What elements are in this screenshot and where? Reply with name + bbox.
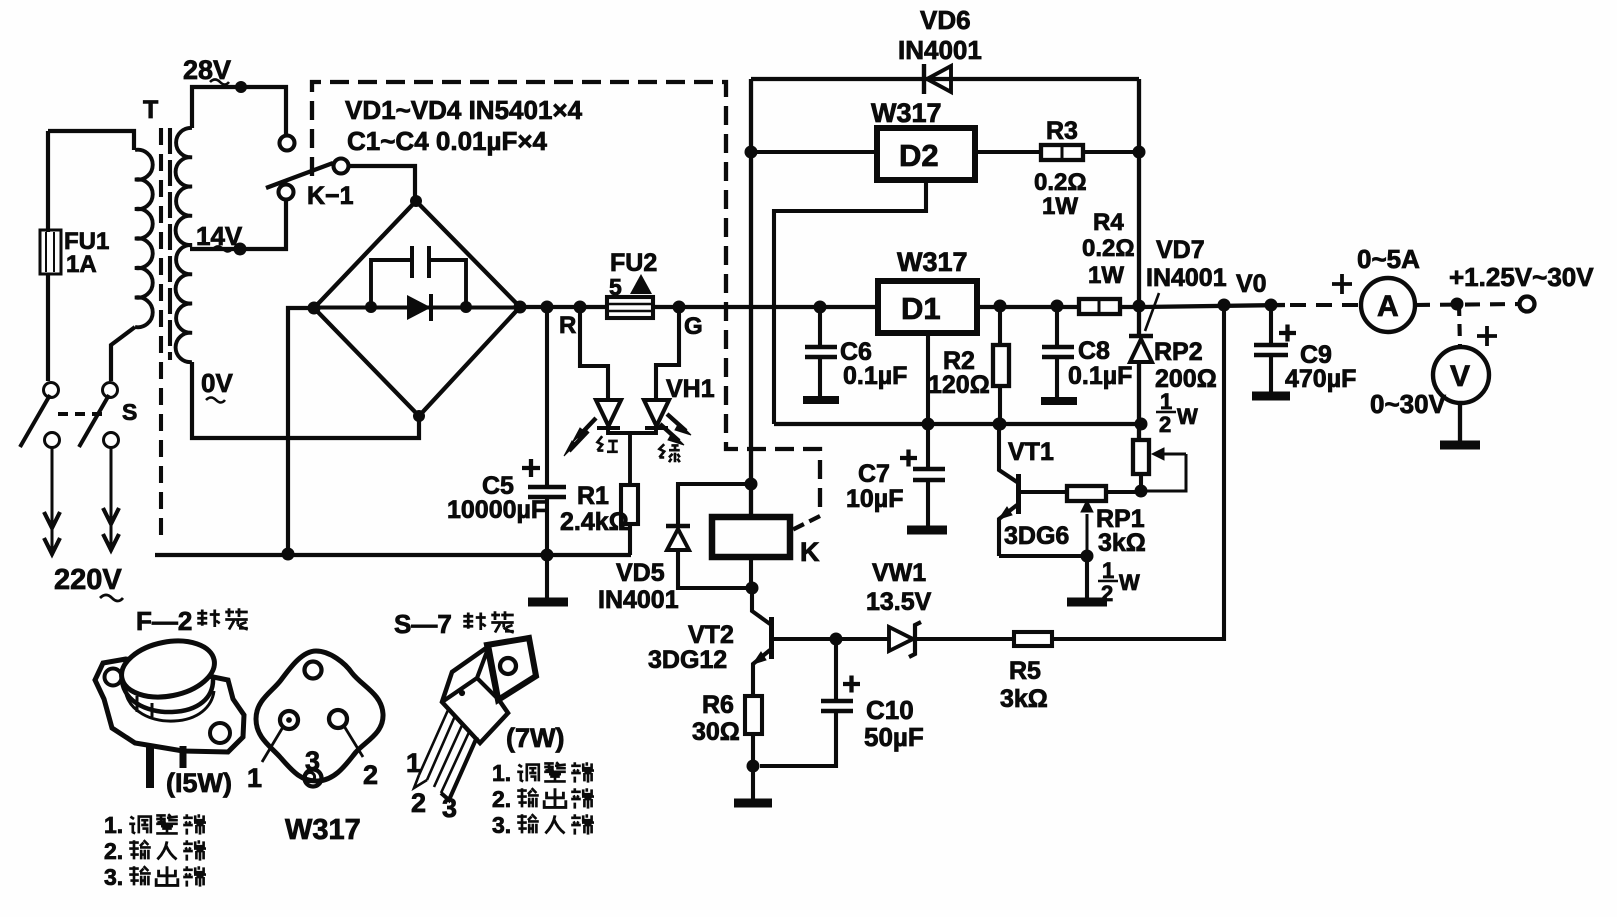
transformer primary winding — [135, 150, 153, 328]
svg-text:28V: 28V — [183, 55, 231, 85]
label RP2 — [1154, 338, 1217, 393]
svg-text:W317: W317 — [897, 247, 968, 277]
label F-2 pin 3 — [104, 864, 206, 890]
svg-text:0.2Ω: 0.2Ω — [1034, 169, 1087, 196]
wire FU1 to switch — [46, 274, 50, 381]
svg-text:2.4kΩ: 2.4kΩ — [560, 508, 629, 536]
wire 14V tap — [190, 200, 286, 249]
svg-text:V0: V0 — [1236, 270, 1267, 298]
svg-text:1.: 1. — [492, 760, 511, 786]
node bridge top vertex — [410, 195, 422, 207]
svg-text:S: S — [122, 399, 137, 425]
svg-text:R4: R4 — [1093, 209, 1124, 236]
node bridge bottom vertex — [413, 410, 425, 422]
svg-text:1: 1 — [247, 763, 262, 793]
svg-text:1A: 1A — [66, 251, 97, 278]
wire primary top — [48, 131, 134, 150]
svg-text:VW1: VW1 — [872, 559, 926, 587]
node C5 tap — [541, 301, 554, 314]
node R6 C10 junction — [747, 760, 760, 773]
svg-text:R6: R6 — [702, 691, 734, 719]
node VO — [1218, 299, 1231, 312]
package W317 bottom view — [256, 651, 383, 787]
svg-text:VD6: VD6 — [920, 5, 971, 35]
svg-text:VT1: VT1 — [1008, 438, 1054, 466]
capacitor C8 — [1042, 306, 1074, 397]
label S-7 pin 1 — [492, 760, 594, 786]
wire main rail G to D1 — [760, 305, 878, 309]
regulator U D2 (W317) — [877, 128, 975, 180]
label plus voltmeter — [1477, 326, 1497, 346]
svg-text:2.: 2. — [104, 838, 123, 864]
wire primary left drop — [46, 131, 50, 232]
label RP2 half W — [1159, 389, 1198, 437]
svg-text:VT2: VT2 — [688, 621, 734, 649]
wire VT2 base row — [772, 637, 889, 641]
svg-text:0~5A: 0~5A — [1357, 244, 1420, 274]
capacitor C1-C4 symbol inside bridge — [371, 246, 466, 307]
label C8 — [1068, 337, 1132, 390]
svg-text:2: 2 — [363, 760, 378, 790]
label green lv — [659, 444, 679, 462]
node bridge cap left dot — [365, 301, 377, 313]
svg-text:1W: 1W — [1042, 193, 1078, 220]
wire ammeter to terminal — [1415, 304, 1519, 305]
wire primary bottom — [111, 327, 135, 381]
wire R6 to ground — [751, 734, 755, 766]
diode VD1-VD4 symbol inside bridge — [407, 294, 431, 321]
package S-7 TO-220 drawing — [414, 638, 536, 800]
svg-text:13.5V: 13.5V — [866, 588, 932, 616]
svg-text:220V: 220V — [54, 564, 122, 596]
svg-text:K−1: K−1 — [307, 182, 354, 210]
svg-text:1: 1 — [1102, 558, 1114, 583]
wire main rail left section — [520, 305, 607, 309]
label C7 — [846, 460, 903, 513]
node D1 adj junction — [922, 418, 935, 431]
svg-text:0V: 0V — [201, 368, 233, 398]
wire R3 to right column — [1083, 150, 1139, 154]
package F-2 TO-3 drawing — [95, 634, 244, 788]
svg-text:VH1: VH1 — [666, 375, 715, 403]
wire R4 to node — [1120, 305, 1141, 309]
switch K-1 contact from 28V — [280, 136, 295, 151]
svg-text:0~30V: 0~30V — [1370, 389, 1447, 419]
label R3 value — [1034, 169, 1087, 220]
wire main rail D1 to R4 — [977, 305, 1079, 309]
svg-text:2: 2 — [411, 788, 426, 818]
svg-text:FU2: FU2 — [610, 249, 657, 277]
node ground rail bridge dot — [282, 548, 295, 561]
svg-text:C1~C4 0.01µF×4: C1~C4 0.01µF×4 — [347, 126, 548, 156]
resistor R5 — [1014, 632, 1052, 646]
svg-text:0.2Ω: 0.2Ω — [1082, 235, 1135, 262]
label RP1 half W — [1101, 558, 1140, 606]
wire D2 output to R3 — [975, 150, 1041, 154]
wire LED common — [608, 427, 656, 485]
svg-text:30Ω: 30Ω — [692, 718, 740, 746]
dashed link to relay K — [790, 516, 820, 531]
diode VD5 — [666, 484, 753, 588]
resistor R4 — [1079, 299, 1120, 314]
node voltmeter tap — [1451, 298, 1464, 311]
node RP1 wiper junction — [1081, 550, 1094, 563]
diode VD6 — [924, 64, 951, 94]
resistor R3 — [1041, 145, 1083, 160]
LED green emission arrows — [660, 414, 691, 445]
transistor VT2 — [752, 588, 772, 696]
label VD5 — [598, 559, 679, 614]
svg-text:3.: 3. — [492, 812, 511, 838]
wire 0V to bridge bottom — [192, 362, 419, 438]
svg-text:(7W): (7W) — [506, 723, 564, 753]
svg-text:S—7: S—7 — [394, 609, 452, 639]
wire D2 input — [751, 150, 877, 154]
node VT1 collector junction — [993, 418, 1006, 431]
LED green VH1 — [644, 400, 669, 428]
wire main rail to VO — [1141, 305, 1285, 307]
svg-text:D1: D1 — [901, 291, 941, 326]
potentiometer RP1 — [1067, 486, 1141, 556]
label S-7 pin 3 — [492, 812, 594, 838]
label R2 — [928, 347, 990, 399]
ground under C5 — [528, 555, 568, 602]
ground under voltmeter — [1440, 403, 1480, 445]
switch K-1 arm — [266, 163, 333, 188]
label red hong — [597, 436, 617, 452]
svg-text:W317: W317 — [871, 98, 942, 128]
wire R1 to ground rail — [628, 524, 632, 555]
label C6 — [840, 338, 907, 390]
wire 220V lead 1 with arrow — [44, 448, 60, 556]
svg-text:R3: R3 — [1046, 117, 1078, 145]
switch S pole 1 — [20, 383, 60, 448]
label F-2 pin 2 — [104, 838, 206, 864]
capacitor C6 — [805, 307, 837, 396]
transistor VT1 — [999, 424, 1019, 556]
label FU1 1A — [64, 228, 109, 278]
svg-text:0.1µF: 0.1µF — [843, 362, 907, 390]
svg-text:120Ω: 120Ω — [928, 371, 990, 399]
wire VT1 emitter row — [999, 554, 1087, 558]
label R5 — [1000, 657, 1048, 713]
label R6 — [692, 691, 740, 746]
resistor R1 — [621, 485, 638, 524]
svg-text:R5: R5 — [1009, 657, 1041, 685]
ammeter A — [1361, 278, 1415, 332]
label plus before ammeter — [1332, 274, 1352, 294]
capacitor C10 — [760, 639, 860, 766]
node C9 tap — [1265, 299, 1278, 312]
wire 28V tap — [192, 87, 286, 136]
node VT2 collector junction — [746, 582, 759, 595]
ground under C8 — [1041, 397, 1077, 405]
node G — [673, 301, 686, 314]
ground under R6 — [734, 766, 772, 803]
svg-text:K: K — [800, 537, 820, 567]
ground under C9 — [1252, 392, 1290, 401]
svg-text:3DG12: 3DG12 — [648, 646, 727, 674]
node bridge left vertex — [308, 302, 321, 315]
node R — [574, 301, 587, 314]
node R2 bottom junction — [994, 418, 1007, 431]
svg-text:3: 3 — [305, 746, 320, 776]
wire K-1 to bridge top — [349, 166, 415, 198]
node 28V tap dot — [235, 81, 247, 93]
fuse FU2 — [607, 297, 653, 318]
wire 220V lead 2 with arrow — [103, 448, 119, 552]
svg-text:C8: C8 — [1078, 337, 1110, 365]
wire R branch to red LED — [580, 307, 608, 399]
svg-text:5: 5 — [609, 274, 622, 300]
label C9 — [1285, 341, 1356, 393]
wire VW1 to R5 — [916, 637, 1014, 641]
node relay feed junction — [745, 478, 758, 491]
svg-text:470µF: 470µF — [1285, 365, 1356, 393]
svg-text:3.: 3. — [104, 864, 123, 890]
svg-text:T: T — [143, 96, 158, 124]
wire D1 adj leg — [926, 333, 930, 424]
leader line VD7 — [1145, 293, 1159, 331]
LED red VH1 — [596, 400, 621, 428]
switch K-1 contact common — [334, 159, 349, 174]
label C5 10000uF — [447, 472, 546, 524]
wire voltmeter drop dashed — [1459, 304, 1460, 347]
node 14V tap dot — [234, 243, 247, 256]
svg-text:VD5: VD5 — [616, 559, 665, 587]
svg-text:W: W — [1119, 570, 1140, 595]
svg-text:R1: R1 — [577, 482, 609, 510]
svg-text:C10: C10 — [866, 695, 914, 725]
wire feed line x751 — [749, 79, 753, 515]
node bridge cap right dot — [460, 301, 472, 313]
wire D2 adj routing — [774, 180, 926, 424]
svg-text:2: 2 — [1159, 412, 1171, 437]
svg-text:3kΩ: 3kΩ — [1000, 685, 1048, 713]
zener VW1 — [889, 622, 921, 657]
wire ground rail — [155, 553, 631, 557]
LED red emission arrows — [564, 418, 596, 456]
svg-text:3DG6: 3DG6 — [1004, 522, 1069, 550]
wire relay bottom — [749, 557, 753, 588]
node bridge right vertex — [514, 301, 527, 314]
wire right column x1139 — [1137, 79, 1141, 440]
relay K coil — [712, 517, 790, 557]
wire top rail — [751, 77, 1139, 81]
svg-text:10000µF: 10000µF — [447, 496, 546, 524]
switch S pole 2 — [79, 383, 119, 448]
svg-text:10µF: 10µF — [846, 485, 903, 513]
svg-text:W317: W317 — [285, 814, 361, 846]
label F-2 pin 1 — [104, 812, 206, 838]
node C5 ground junction — [541, 549, 554, 562]
resistor R2 — [993, 306, 1009, 424]
dashed enclosure box — [312, 82, 820, 514]
capacitor C7 — [900, 424, 945, 526]
wire G branch to green LED — [656, 307, 679, 399]
wire VT1 base to RP1 — [1018, 490, 1067, 494]
node C6 tap — [814, 301, 827, 314]
fuse FU1 — [40, 230, 61, 274]
svg-text:G: G — [684, 313, 703, 340]
terminal output — [1520, 297, 1535, 312]
svg-text:IN4001: IN4001 — [1146, 264, 1227, 292]
capacitor C5 — [522, 307, 566, 555]
label RP1 — [1096, 505, 1146, 557]
node adj rail right junction — [1135, 418, 1148, 431]
bridge rectifier diamond — [314, 201, 520, 416]
svg-text:F—2: F—2 — [136, 606, 192, 636]
svg-text:2.: 2. — [492, 786, 511, 812]
svg-text:0.1µF: 0.1µF — [1068, 362, 1132, 390]
label VD7 — [1146, 236, 1227, 292]
svg-text:R: R — [559, 312, 576, 339]
label R1 2.4k — [560, 482, 629, 536]
wire dashed to ammeter — [1290, 303, 1360, 307]
svg-text:D2: D2 — [899, 138, 939, 173]
ground under C7 — [907, 526, 947, 535]
node C8 tap — [1051, 300, 1064, 313]
potentiometer RP2 — [1133, 440, 1186, 492]
svg-text:1.: 1. — [104, 812, 123, 838]
label S-7 pin 2 — [492, 786, 594, 812]
label R4 — [1082, 209, 1135, 289]
switch K-1 contact from 14V — [279, 185, 294, 200]
node R3 right junction — [1133, 146, 1146, 159]
svg-text:1W: 1W — [1088, 262, 1124, 289]
wire bridge left to ground rail — [288, 308, 314, 554]
capacitor C9 — [1254, 305, 1296, 392]
svg-text:3kΩ: 3kΩ — [1098, 529, 1146, 557]
regulator U D1 (W317) — [878, 281, 977, 333]
node C10 tap — [830, 633, 843, 646]
wire adj rail — [774, 422, 1141, 426]
label C10 — [864, 695, 924, 752]
svg-text:IN4001: IN4001 — [898, 35, 982, 65]
svg-text:+1.25V~30V: +1.25V~30V — [1449, 262, 1594, 292]
svg-text:1: 1 — [1160, 389, 1172, 414]
ground under RP1 — [1067, 556, 1107, 602]
svg-text:1: 1 — [406, 748, 421, 778]
wire R5 to VO column — [1052, 307, 1224, 639]
node R2 top — [994, 300, 1007, 313]
svg-text:C7: C7 — [858, 460, 890, 488]
resistor R6 — [745, 696, 762, 734]
node D2 input junction — [745, 146, 758, 159]
voltmeter V — [1433, 347, 1489, 403]
label VW1 — [866, 559, 932, 616]
svg-text:W: W — [1177, 404, 1198, 429]
label VT2 — [648, 621, 734, 674]
wire bridge horizontal diameter — [314, 306, 520, 310]
label S-7 pin numbers — [406, 748, 457, 823]
diode VD7 — [1129, 336, 1153, 362]
transformer core — [161, 128, 170, 540]
node RP2 bottom junction — [1135, 485, 1148, 498]
node main rail right column — [1133, 300, 1146, 313]
svg-text:3: 3 — [442, 793, 457, 823]
transformer secondary winding — [176, 128, 192, 362]
svg-text:IN4001: IN4001 — [598, 586, 679, 614]
switch S link dashed — [58, 412, 102, 416]
svg-text:V: V — [1450, 360, 1470, 393]
svg-text:A: A — [1377, 290, 1399, 323]
svg-text:RP2: RP2 — [1154, 338, 1203, 366]
wire main rail FU2 to G — [653, 305, 760, 309]
svg-text:(I5W): (I5W) — [166, 768, 232, 798]
svg-text:VD1~VD4 IN5401×4: VD1~VD4 IN5401×4 — [345, 95, 583, 125]
svg-text:50µF: 50µF — [864, 722, 924, 752]
svg-text:VD7: VD7 — [1156, 236, 1205, 264]
ground under C6 — [803, 396, 839, 404]
